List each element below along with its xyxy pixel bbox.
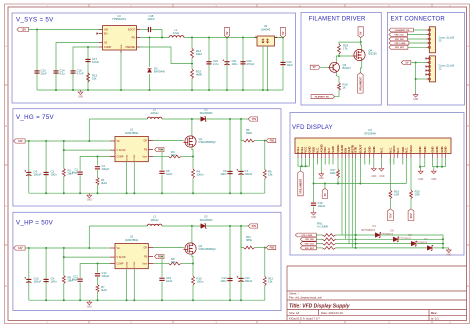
port VFD_DIN display side [300, 237, 316, 241]
power tag 5V right [280, 28, 285, 38]
svg-text:DOUT: DOUT [358, 144, 362, 152]
U2 pin FB [148, 256, 153, 258]
wire boost input riser U2 [88, 226, 90, 248]
inductor L3 [89, 225, 147, 227]
wire D3 branch [149, 38, 151, 68]
wire VFD_RST to RN1 [316, 247, 322, 249]
wire 5V tag to node [360, 38, 362, 43]
resistor R3 [169, 155, 182, 158]
junctions V_SYS gnd rail [55, 89, 57, 91]
svg-text:GND: GND [372, 146, 376, 152]
svg-text:EXT CONNECTOR: EXT CONNECTOR [391, 16, 446, 22]
svg-text:N.C.: N.C. [363, 147, 367, 153]
svg-text:47uH: 47uH [173, 31, 179, 35]
svg-text:4 x 330R: 4 x 330R [317, 225, 328, 229]
port 50V output [248, 224, 258, 228]
svg-text:SK22064M: SK22064M [200, 218, 213, 222]
svg-text:GP1294AI: GP1294AI [364, 132, 376, 136]
wire divider mid U1 [255, 140, 265, 142]
svg-text:STB: STB [353, 147, 357, 153]
svg-text:5V: 5V [324, 193, 327, 196]
ic U3 TPS562219 body [103, 26, 137, 50]
svg-text:J2: J2 [439, 67, 442, 71]
svg-text:100n: 100n [232, 62, 239, 66]
svg-text:17k: 17k [343, 47, 348, 51]
svg-text:GND: GND [435, 146, 439, 152]
wire R16 to 75V tag [389, 199, 391, 209]
svg-text:Size: A4: Size: A4 [289, 311, 300, 315]
svg-text:LM3478MA: LM3478MA [125, 238, 139, 242]
wire sense node U1 [181, 156, 193, 158]
svg-text:FILAMENT DRIVER: FILAMENT DRIVER [309, 16, 366, 22]
svg-text:Isen: Isen [143, 263, 148, 265]
svg-text:12V: 12V [21, 27, 26, 31]
junctions output U2 [229, 225, 231, 227]
junctions zener bus [442, 238, 444, 240]
svg-text:U2: U2 [130, 235, 134, 239]
svg-text:39pF: 39pF [72, 171, 79, 175]
zener D4 BZT52B3V3 [375, 233, 380, 238]
svg-text:BZT52B3V3: BZT52B3V3 [362, 229, 376, 232]
junctions input U2 [28, 247, 30, 249]
resistor R10 [192, 276, 195, 285]
svg-text:VIN: VIN [104, 28, 108, 31]
wire VSL net U2 [64, 256, 110, 258]
svg-text:File: vfd_display.kicad_sch: File: vfd_display.kicad_sch [289, 295, 323, 299]
junction FB U1 [161, 149, 163, 151]
svg-text:100pF: 100pF [102, 274, 110, 278]
svg-text:FILAMENT_EN: FILAMENT_EN [315, 96, 330, 99]
section box V_SYS [12, 13, 296, 103]
section box EXT CONNECTOR [387, 12, 464, 105]
wire gate U2 [153, 247, 184, 249]
port 75V output [248, 117, 258, 121]
svg-text:GND: GND [319, 178, 324, 180]
capacitor C11 [78, 278, 83, 280]
junction PH boot node [161, 37, 163, 39]
wire VFD_DIN to J3 [407, 38, 426, 40]
resistor R8 [63, 248, 65, 276]
capacitor C23 [240, 61, 245, 63]
svg-text:GND: GND [418, 179, 423, 181]
junction ext 5V bus [415, 62, 417, 64]
wire 5V to J2 [411, 62, 427, 64]
svg-text:EN: EN [104, 32, 108, 35]
port 12V input U2 [14, 246, 26, 250]
svg-text:50V: 50V [252, 224, 257, 228]
svg-text:C: C [467, 205, 469, 208]
svg-text:TPS562219: TPS562219 [112, 17, 126, 21]
svg-text:V SL/SD: V SL/SD [117, 150, 126, 152]
resistor R20 [410, 158, 412, 190]
ground EXT [413, 93, 418, 98]
svg-text:VHV2: VHV2 [409, 145, 413, 153]
svg-text:GND: GND [78, 96, 83, 98]
wire R20 to 50V tag [410, 199, 412, 209]
resistor R19 [338, 83, 341, 91]
svg-text:22uF: 22uF [41, 72, 48, 76]
capacitor C13 [34, 70, 39, 72]
svg-text:5V: 5V [405, 60, 408, 64]
svg-text:V_SYS = 5V: V_SYS = 5V [16, 17, 54, 24]
wire VFD_DIN to RN1 [316, 238, 322, 240]
svg-text:V_HG = 75V: V_HG = 75V [16, 114, 54, 121]
port FB1 at U1 FB pin [155, 147, 165, 151]
svg-text:VFILAMENT: VFILAMENT [359, 76, 362, 90]
capacitor C24 [206, 61, 211, 63]
resistor R16 [389, 158, 391, 190]
wire node to Q4 source [361, 42, 362, 49]
svg-text:10k2: 10k2 [196, 52, 202, 56]
wire VFILAMENT stem [300, 166, 302, 171]
wires U5 elbows to rows [341, 158, 343, 235]
capacitor C7 [240, 119, 242, 193]
U2 pin Vin [110, 247, 115, 249]
section box FILAMENT DRIVER [301, 12, 381, 105]
no-connect marks J2 [425, 57, 427, 75]
wire 12V rail U2 [25, 247, 110, 249]
wire VFD_CLK to J3 [407, 34, 426, 36]
junction divider mid [191, 63, 193, 65]
svg-text:10uF: 10uF [287, 63, 294, 67]
wire node to R18 [339, 42, 361, 44]
U3 pin PAD [120, 50, 122, 53]
wire Q1 drain [191, 119, 193, 136]
svg-text:10uF: 10uF [166, 172, 173, 176]
wire R14 top [191, 38, 193, 49]
wire R19 to FILAMENT_EN [335, 90, 340, 96]
svg-text:U3: U3 [117, 14, 121, 18]
svg-text:BZT52B3V3: BZT52B3V3 [414, 242, 428, 245]
wire 12V rail U1 [25, 140, 110, 142]
U4 internal elements [262, 39, 269, 44]
port 12V input U1 [14, 139, 26, 143]
svg-text:GND: GND [444, 146, 448, 152]
wire Q2 drain [191, 226, 193, 243]
resistor R12 [263, 277, 266, 286]
resistor R18 [338, 44, 341, 54]
ic U5 GP1294AI body [295, 138, 451, 154]
resistor R6 [263, 170, 266, 179]
port VFD_LOAD display side [295, 233, 316, 237]
svg-text:BAT54W: BAT54W [154, 70, 165, 74]
wire C23 branch [242, 38, 244, 91]
wire C24 branch [208, 38, 210, 91]
svg-text:100pF: 100pF [102, 167, 110, 171]
capacitor C5 [159, 170, 164, 172]
wire R10 to gnd [192, 285, 194, 300]
wire R14 to R15 [191, 58, 193, 69]
capacitor C13 [229, 226, 231, 300]
wire BOOT to C18 [140, 29, 148, 31]
resistor RN1 element 4 [323, 246, 336, 249]
wire Q2 source [192, 254, 193, 276]
svg-text:10uF: 10uF [166, 279, 173, 283]
svg-text:COMP: COMP [117, 263, 124, 265]
svg-text:3k01: 3k01 [101, 288, 107, 292]
svg-text:GND: GND [430, 146, 434, 152]
svg-text:N.C.: N.C. [396, 147, 400, 153]
wire boost input riser U1 [88, 119, 90, 141]
svg-text:U4: U4 [264, 24, 268, 28]
svg-text:GND: GND [367, 146, 371, 152]
svg-text:CSD19538Q2: CSD19538Q2 [199, 140, 217, 144]
capacitor C16 [311, 202, 316, 204]
wire C21 branch [226, 38, 228, 91]
ground zener bus [446, 248, 451, 253]
port VFD_LOAD ext side [389, 41, 409, 45]
resistor R13 [87, 73, 90, 82]
svg-text:FB: FB [144, 256, 147, 258]
wire C16 branch [313, 184, 315, 203]
svg-text:VFD_CLK: VFD_CLK [305, 244, 315, 246]
ic U2 LM3478MA body [115, 243, 148, 268]
capacitor C16 [70, 70, 75, 72]
svg-text:4k99: 4k99 [196, 73, 202, 77]
svg-text:470pF: 470pF [247, 62, 255, 66]
svg-text:5V: 5V [282, 31, 285, 34]
svg-text:12V: 12V [18, 246, 23, 250]
wire zener cathodes to gnd bus [381, 235, 443, 248]
resistor R15 [191, 69, 194, 79]
svg-text:AGND: AGND [125, 154, 128, 161]
U1 pin COMP [110, 156, 115, 158]
diode D1 SK22064M [201, 117, 206, 122]
wire C15 to gnd [161, 282, 163, 301]
wire R17 to 5V line [337, 178, 339, 184]
diode D2 SK22064M [201, 224, 206, 229]
wire divider top U2 [241, 226, 244, 248]
junctions gnd rail U2 [45, 299, 47, 301]
wire 5V tag stem [324, 184, 326, 189]
resistor R11 [244, 246, 255, 249]
wire gnd rail U1 [29, 192, 265, 194]
title block outline [287, 266, 467, 321]
svg-text:100nF: 100nF [318, 204, 326, 208]
svg-text:SAW: SAW [331, 146, 335, 153]
port 75V display side [388, 209, 394, 221]
svg-text:V_HP = 50V: V_HP = 50V [16, 220, 54, 227]
svg-text:LM3478MA: LM3478MA [125, 131, 139, 135]
wire VFD_LOAD to RN1 [316, 234, 322, 236]
svg-text:FILAMENT_EN: FILAMENT_EN [395, 29, 410, 32]
svg-text:AGND: AGND [125, 261, 128, 268]
svg-text:VFD DISPLAY: VFD DISPLAY [292, 125, 333, 131]
svg-text:C: C [5, 205, 7, 208]
resistor R14 [191, 49, 194, 59]
port VFD_DIN ext side [389, 37, 408, 41]
svg-text:Rev:: Rev: [431, 311, 437, 315]
wire ext bus to J2 pin6 [416, 78, 427, 80]
ic U1 LM3478MA body [115, 136, 148, 161]
wire COMP branch [73, 47, 99, 90]
port 5V base [310, 65, 320, 69]
ground cluster A pins [419, 158, 421, 167]
ground V_SYS [78, 90, 83, 95]
svg-text:8.2u: 8.2u [60, 72, 66, 76]
svg-text:383k: 383k [246, 238, 253, 242]
junction source U1 [192, 156, 194, 158]
transistor Q1 CSD19538Q2 [185, 136, 196, 147]
wire 5V rail [184, 37, 283, 39]
junction gate node [338, 55, 340, 57]
junction drain U1 [191, 118, 193, 120]
svg-text:PAD: PAD [120, 44, 123, 49]
wire Isen net U1 [153, 156, 169, 158]
svg-text:GND: GND [311, 217, 316, 219]
wire U4 right to rail [277, 37, 283, 39]
svg-text:COMP: COMP [117, 156, 124, 158]
wire Q1 source [192, 147, 193, 169]
resistor R2 [63, 141, 65, 169]
wire sense node U2 [181, 263, 193, 265]
U4 pin left [255, 37, 258, 39]
svg-text:VFD_CLK: VFD_CLK [395, 34, 405, 36]
svg-text:KiCad E.D.A. kicad 7.0.7: KiCad E.D.A. kicad 7.0.7 [289, 317, 320, 321]
svg-text:100n: 100n [220, 279, 227, 283]
capacitor C12 [97, 264, 99, 273]
resistor R1 [97, 170, 99, 178]
U3 pin EN [99, 33, 103, 35]
svg-text:100m: 100m [197, 173, 205, 177]
svg-text:DR: DR [144, 248, 148, 250]
junctions 5V rail [191, 37, 193, 39]
svg-text:Id: 1/1: Id: 1/1 [431, 317, 439, 321]
wire pin to 5V line right [359, 158, 361, 184]
wire L3 to D2 [162, 225, 201, 227]
transistor Q3 BC817 [330, 62, 340, 72]
svg-text:100uF: 100uF [34, 280, 42, 284]
inductor L1 [169, 36, 184, 38]
wire FB1 down to R6 [264, 141, 266, 170]
wire C22 branch [282, 38, 284, 91]
wire U4 gnd pins [262, 46, 264, 90]
resistor RN1 element 1 [323, 234, 336, 237]
capacitor C4 [28, 141, 30, 193]
svg-text:SK22064M: SK22064M [200, 111, 213, 115]
wire R12 to gnd [264, 286, 266, 301]
junction ext bus pin6 [415, 78, 417, 80]
svg-text:VFD_DIN: VFD_DIN [305, 239, 314, 241]
svg-text:12V: 12V [18, 139, 23, 143]
U3 pin VIN [99, 29, 103, 31]
svg-text:100uF: 100uF [245, 172, 253, 176]
svg-text:39pF: 39pF [72, 278, 79, 282]
wire gnd rail U2 [29, 299, 265, 301]
junctions on 5V line [337, 183, 339, 185]
wire VSL net U1 [64, 149, 110, 151]
capacitor C17 [85, 58, 90, 60]
section box V_HG [13, 109, 281, 206]
svg-text:BC817: BC817 [343, 66, 352, 70]
U1 pin Isen [148, 156, 153, 158]
port VFD_CLK display side [300, 242, 316, 246]
wire U5 filament pins join [297, 158, 299, 166]
wire gate node to Q3 collector [336, 56, 339, 62]
resistor R17 [337, 158, 339, 170]
wire Q3 base [320, 66, 328, 68]
svg-text:GND: GND [413, 99, 418, 101]
U2 pin COMP [110, 263, 115, 265]
port VFD_CLK ext side [389, 33, 408, 37]
svg-text:PH: PH [132, 36, 136, 39]
capacitor C21 [224, 61, 229, 63]
wire FB2 down to R12 [264, 248, 266, 277]
U2 pin VSL [110, 256, 115, 258]
port 5V ext side [401, 60, 411, 64]
wire output rail U2 [206, 225, 248, 227]
resistor R4 [192, 169, 195, 178]
svg-text:DR: DR [144, 141, 148, 143]
ground U2 [87, 300, 92, 305]
junction drain U2 [191, 225, 193, 227]
wire divider top U1 [241, 119, 244, 141]
U1 pin Vin [110, 140, 115, 142]
wire D3 to gnd [149, 74, 151, 90]
svg-text:100uF: 100uF [245, 279, 253, 283]
wire R18 to gate node [339, 54, 352, 56]
svg-text:10R: 10R [394, 193, 399, 197]
power tag 5V mid [224, 28, 229, 38]
diode D3 BAT54W [148, 69, 152, 72]
junctions row bus [355, 234, 357, 236]
svg-text:VFD_LOAD: VFD_LOAD [395, 42, 406, 45]
wire divider mid U2 [255, 247, 265, 249]
resistor R9 [169, 262, 182, 265]
svg-text:GND: GND [418, 146, 422, 152]
wire U3 pad to gnd [120, 52, 122, 90]
junction FB U2 [161, 256, 163, 258]
svg-text:N.C.: N.C. [404, 147, 408, 153]
wire R6 to gnd [264, 179, 266, 194]
svg-text:GND: GND [423, 146, 427, 152]
svg-text:100nF: 100nF [147, 17, 155, 21]
wire output rail U1 [206, 118, 248, 120]
svg-text:10R: 10R [415, 193, 420, 197]
wire ext vertical bus [415, 63, 417, 93]
port FB1 at divider U1 [266, 139, 276, 143]
svg-text:6.8nF: 6.8nF [92, 60, 99, 64]
svg-text:100n: 100n [220, 172, 227, 176]
port FILAMENT_EN filament side [311, 95, 335, 99]
svg-text:COMP: COMP [104, 46, 112, 49]
ic U4 body [257, 36, 275, 46]
svg-text:FB: FB [144, 149, 147, 151]
svg-text:590k: 590k [246, 131, 253, 135]
wire C13 branch [36, 30, 38, 91]
svg-text:220uH: 220uH [151, 111, 159, 115]
wire U2 gnd pins [126, 269, 128, 301]
capacitor C6 [229, 119, 231, 193]
wire PH to L1 [140, 37, 169, 39]
wire 12V to U3 VIN [29, 29, 100, 31]
svg-text:GND: GND [371, 176, 376, 178]
port VFILAMENT filament side [358, 73, 363, 94]
U5 pin stubs [298, 154, 446, 159]
svg-text:100: 100 [171, 153, 176, 157]
capacitor C10 [28, 248, 30, 300]
svg-text:10k: 10k [92, 77, 97, 81]
svg-text:J3: J3 [439, 39, 442, 43]
svg-text:75V: 75V [388, 213, 392, 218]
junctions filament join [301, 165, 303, 167]
wires U5 pins down [316, 158, 318, 165]
connector J3 body [429, 27, 435, 53]
section box VFD DISPLAY [290, 113, 464, 256]
U3 pin COMP [99, 46, 103, 48]
svg-text:3k01: 3k01 [101, 181, 107, 185]
wire FILAMENT_EN to J3 [413, 29, 426, 31]
